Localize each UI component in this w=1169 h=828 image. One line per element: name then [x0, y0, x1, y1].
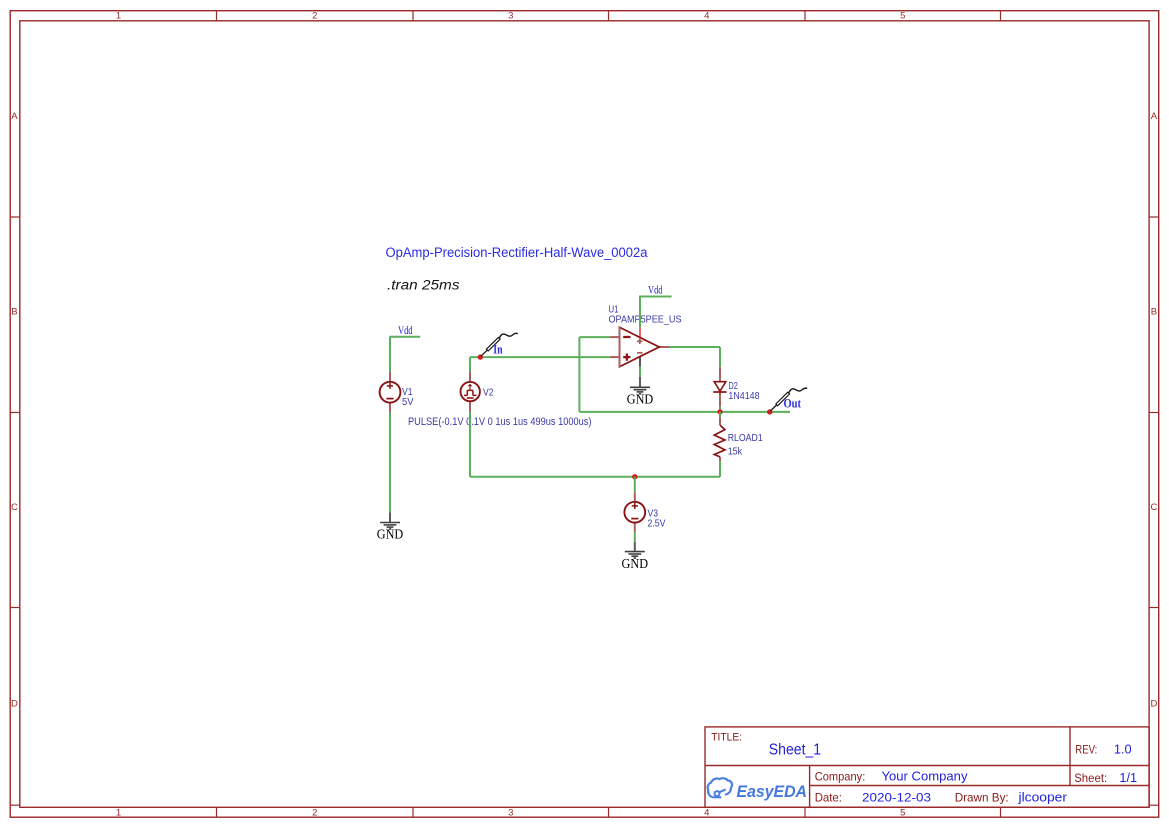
wire diode to junction — [719, 407, 721, 412]
wire V3 top — [634, 477, 636, 493]
label RLOAD1 15k — [728, 433, 763, 458]
label PULSE value — [408, 416, 592, 428]
wire In horizontal — [470, 356, 610, 358]
svg-text:5V: 5V — [402, 397, 414, 408]
svg-text:RLOAD1: RLOAD1 — [728, 433, 763, 444]
wire bottom horizontal — [470, 476, 720, 478]
svg-text:15k: 15k — [728, 447, 743, 458]
svg-text:1.0: 1.0 — [1114, 743, 1132, 757]
svg-text:Vdd: Vdd — [648, 285, 663, 297]
svg-text:Sheet:: Sheet: — [1074, 771, 1107, 785]
svg-text:Vdd: Vdd — [398, 325, 413, 337]
net flag Out probe — [770, 388, 807, 411]
junction In — [478, 354, 483, 359]
label V3 2.5V — [648, 508, 666, 529]
svg-text:2: 2 — [312, 808, 317, 819]
voltage source V1 — [380, 372, 401, 413]
svg-text:A: A — [1151, 111, 1158, 122]
resistor RLOAD1 — [714, 418, 725, 462]
net flag Vdd (op-amp) — [639, 285, 672, 297]
wire opamp output — [670, 346, 720, 348]
op-amp U1 — [610, 327, 670, 368]
output net wire horizontal — [579, 411, 790, 413]
svg-text:2020-12-03: 2020-12-03 — [862, 791, 931, 805]
svg-text:Company:: Company: — [815, 770, 866, 784]
ground GND (V1) — [377, 512, 404, 541]
svg-text:.tran 25ms: .tran 25ms — [387, 277, 460, 292]
svg-text:Sheet_1: Sheet_1 — [769, 742, 821, 759]
svg-text:1/1: 1/1 — [1119, 771, 1137, 785]
wire opamp V- to gnd — [639, 367, 641, 377]
wire V3 bottom — [634, 532, 636, 542]
wire V1 bottom — [389, 413, 391, 513]
svg-text:5: 5 — [900, 11, 905, 22]
svg-text:jlcooper: jlcooper — [1017, 791, 1067, 805]
label U1 OPAMP5PEE_US — [609, 304, 682, 325]
svg-text:GND: GND — [377, 527, 404, 542]
net flag In probe — [481, 333, 518, 356]
svg-text:3: 3 — [508, 808, 513, 819]
svg-text:2.5V: 2.5V — [648, 518, 666, 529]
feedback wire to - input — [579, 336, 610, 338]
svg-text:D: D — [1150, 698, 1157, 709]
junction Out — [767, 409, 772, 414]
svg-text:Date:: Date: — [815, 791, 842, 805]
svg-text:1N4148: 1N4148 — [728, 391, 759, 402]
svg-text:4: 4 — [704, 11, 709, 22]
svg-text:TITLE:: TITLE: — [711, 731, 742, 743]
junction V3 — [632, 474, 637, 479]
svg-text:B: B — [11, 307, 17, 318]
wire junction to resistor — [719, 412, 721, 418]
ground GND (op-amp) — [627, 377, 654, 407]
wire V1 top — [389, 337, 391, 372]
svg-text:REV:: REV: — [1075, 743, 1097, 757]
svg-text:D: D — [11, 698, 18, 709]
svg-text:Out: Out — [784, 396, 802, 411]
svg-text:OPAMP5PEE_US: OPAMP5PEE_US — [609, 314, 682, 325]
svg-text:Drawn By:: Drawn By: — [955, 791, 1009, 805]
wire opamp V+ — [639, 297, 641, 328]
net flag Vdd (V1 branch) — [389, 325, 420, 337]
wire resistor bottom — [719, 461, 721, 476]
svg-text:In: In — [493, 341, 503, 356]
label D2 1N4148 — [728, 381, 759, 402]
svg-text:C: C — [11, 502, 18, 513]
svg-text:5: 5 — [900, 808, 905, 819]
wire output down to diode — [719, 347, 721, 367]
svg-text:B: B — [1151, 307, 1157, 318]
svg-text:V2: V2 — [483, 387, 494, 398]
ground GND (V3) — [622, 542, 649, 571]
svg-text:1: 1 — [116, 11, 121, 22]
svg-text:GND: GND — [622, 556, 649, 571]
diode D2 — [713, 367, 726, 406]
label V2 — [483, 387, 494, 398]
feedback wire vertical — [578, 337, 580, 412]
svg-text:Your Company: Your Company — [882, 770, 969, 784]
svg-text:1: 1 — [116, 808, 121, 819]
svg-text:C: C — [1150, 502, 1157, 513]
svg-text:3: 3 — [508, 11, 513, 22]
svg-text:PULSE(-0.1V 0.1V 0 1us 1us 499: PULSE(-0.1V 0.1V 0 1us 1us 499us 1000us) — [408, 416, 592, 428]
svg-text:4: 4 — [704, 808, 709, 819]
svg-text:A: A — [11, 111, 18, 122]
svg-text:2: 2 — [312, 11, 317, 22]
wire V2 bottom — [469, 412, 471, 477]
schematic title text — [386, 245, 648, 261]
svg-text:OpAmp-Precision-Rectifier-Half: OpAmp-Precision-Rectifier-Half-Wave_0002… — [386, 245, 648, 261]
junction diode/out — [717, 409, 722, 414]
label V1 5V — [402, 387, 414, 408]
svg-text:GND: GND — [627, 392, 654, 407]
spice directive .tran 25ms — [387, 277, 460, 292]
voltage source V3 — [624, 493, 645, 532]
voltage source V2 — [461, 357, 480, 411]
svg-text:EasyEDA: EasyEDA — [737, 783, 808, 801]
